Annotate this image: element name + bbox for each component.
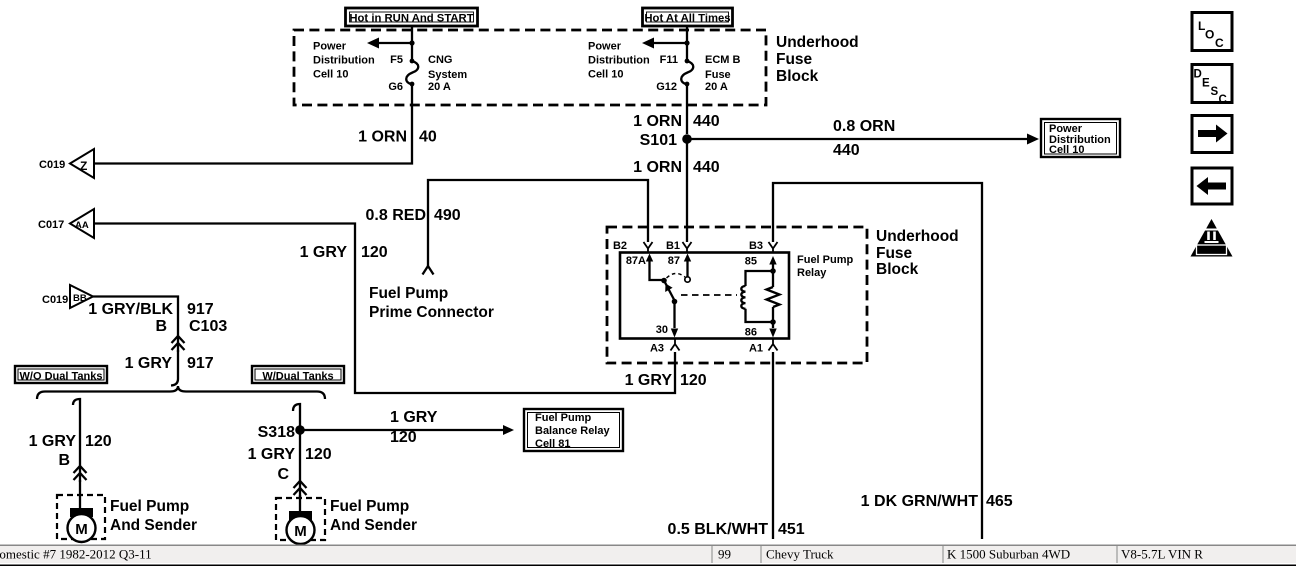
svg-text:Distribution: Distribution [588, 55, 650, 67]
svg-text:1 ORN: 1 ORN [358, 129, 407, 146]
svg-text:1 GRY: 1 GRY [248, 446, 296, 463]
svg-text:OBD II: OBD II [1200, 246, 1223, 255]
svg-text:87: 87 [668, 255, 680, 267]
svg-text:D: D [1194, 69, 1202, 81]
svg-text:0.8 ORN: 0.8 ORN [833, 118, 895, 135]
svg-text:120: 120 [85, 433, 112, 450]
svg-text:Fuel Pump: Fuel Pump [110, 498, 189, 515]
svg-text:20 A: 20 A [428, 81, 451, 93]
svg-text:1 GRY: 1 GRY [390, 409, 438, 426]
svg-text:87A: 87A [626, 255, 646, 267]
svg-text:BB: BB [73, 293, 87, 304]
svg-text:30: 30 [656, 324, 668, 336]
svg-text:1 GRY: 1 GRY [29, 433, 77, 450]
svg-text:B3: B3 [749, 240, 763, 252]
svg-text:85: 85 [745, 256, 757, 268]
svg-text:Hot in RUN And START: Hot in RUN And START [349, 13, 473, 25]
svg-text:Cell 10: Cell 10 [588, 69, 623, 81]
svg-text:G6: G6 [388, 81, 403, 93]
svg-text:40: 40 [419, 129, 437, 146]
svg-text:1 GRY: 1 GRY [300, 244, 348, 261]
svg-text:B1: B1 [666, 240, 680, 252]
svg-text:Domestic #7 1982-2012 Q3-11: Domestic #7 1982-2012 Q3-11 [0, 547, 152, 562]
svg-text:S318: S318 [258, 424, 295, 441]
svg-text:Fuse: Fuse [776, 51, 813, 68]
svg-text:C: C [1215, 36, 1224, 50]
svg-text:G12: G12 [656, 81, 677, 93]
svg-text:Underhood: Underhood [876, 228, 959, 245]
svg-text:Cell 10: Cell 10 [1049, 144, 1084, 156]
svg-text:Block: Block [876, 261, 919, 278]
svg-text:Block: Block [776, 68, 819, 85]
svg-text:Fuse: Fuse [876, 245, 913, 262]
svg-text:120: 120 [361, 244, 388, 261]
svg-text:Fuel Pump: Fuel Pump [369, 285, 448, 302]
svg-text:451: 451 [778, 521, 805, 538]
svg-text:120: 120 [305, 446, 332, 463]
svg-text:0.8 RED: 0.8 RED [366, 207, 426, 224]
svg-text:F11: F11 [660, 54, 678, 66]
svg-text:Distribution: Distribution [313, 55, 375, 67]
svg-text:917: 917 [187, 355, 214, 372]
svg-text:S: S [1211, 86, 1219, 98]
svg-text:V8-5.7L VIN R: V8-5.7L VIN R [1121, 547, 1203, 562]
svg-text:Relay: Relay [797, 267, 827, 279]
svg-text:86: 86 [745, 327, 757, 339]
svg-text:M: M [294, 523, 307, 540]
svg-text:C017: C017 [38, 219, 64, 231]
svg-text:Cell 10: Cell 10 [313, 69, 348, 81]
svg-text:Cell 81: Cell 81 [535, 438, 570, 450]
svg-text:O: O [1205, 28, 1214, 42]
svg-text:AA: AA [75, 220, 89, 231]
svg-text:917: 917 [187, 301, 214, 318]
svg-text:1 DK GRN/WHT: 1 DK GRN/WHT [861, 493, 979, 510]
svg-text:A3: A3 [650, 343, 664, 355]
svg-text:1 ORN: 1 ORN [633, 159, 682, 176]
svg-text:Fuse: Fuse [705, 69, 731, 81]
svg-text:465: 465 [986, 493, 1013, 510]
svg-text:490: 490 [434, 207, 461, 224]
svg-text:W/O Dual Tanks: W/O Dual Tanks [20, 371, 103, 383]
svg-text:Z: Z [80, 159, 87, 173]
svg-text:Underhood: Underhood [776, 34, 859, 51]
svg-text:99: 99 [718, 547, 731, 562]
svg-text:1 GRY: 1 GRY [625, 372, 673, 389]
svg-text:1 ORN: 1 ORN [633, 113, 682, 130]
svg-text:1 GRY: 1 GRY [125, 355, 173, 372]
svg-text:C: C [277, 466, 289, 483]
svg-text:B: B [58, 452, 70, 469]
svg-text:120: 120 [680, 372, 707, 389]
svg-text:Prime Connector: Prime Connector [369, 304, 494, 321]
svg-text:Hot At All Times: Hot At All Times [644, 13, 730, 25]
svg-text:C: C [1219, 94, 1227, 106]
svg-text:Chevy Truck: Chevy Truck [766, 547, 834, 562]
svg-text:Power: Power [588, 41, 622, 53]
svg-text:20 A: 20 A [705, 81, 728, 93]
svg-text:E: E [1202, 78, 1210, 90]
svg-text:120: 120 [390, 429, 417, 446]
svg-text:C019: C019 [39, 159, 65, 171]
svg-text:F5: F5 [390, 54, 403, 66]
svg-text:Fuel Pump: Fuel Pump [535, 412, 592, 424]
svg-text:C019: C019 [42, 294, 68, 306]
svg-text:Power: Power [313, 41, 347, 53]
svg-text:Balance Relay: Balance Relay [535, 425, 610, 437]
svg-text:Fuel Pump: Fuel Pump [797, 254, 854, 266]
svg-text:B2: B2 [613, 240, 627, 252]
svg-text:W/Dual Tanks: W/Dual Tanks [262, 371, 333, 383]
svg-text:CNG: CNG [428, 54, 452, 66]
svg-text:And Sender: And Sender [330, 517, 417, 534]
svg-text:B: B [155, 318, 167, 335]
svg-text:C103: C103 [189, 318, 227, 335]
svg-text:ECM B: ECM B [705, 54, 741, 66]
svg-text:And Sender: And Sender [110, 517, 197, 534]
svg-text:440: 440 [693, 113, 720, 130]
svg-text:System: System [428, 69, 467, 81]
svg-text:440: 440 [693, 159, 720, 176]
svg-text:0.5 BLK/WHT: 0.5 BLK/WHT [668, 521, 769, 538]
svg-text:S101: S101 [640, 132, 677, 149]
svg-text:Fuel Pump: Fuel Pump [330, 498, 409, 515]
svg-text:A1: A1 [749, 343, 763, 355]
svg-text:440: 440 [833, 142, 860, 159]
svg-text:K 1500 Suburban 4WD: K 1500 Suburban 4WD [947, 547, 1070, 562]
svg-text:1 GRY/BLK: 1 GRY/BLK [88, 301, 173, 318]
svg-text:M: M [75, 521, 88, 538]
